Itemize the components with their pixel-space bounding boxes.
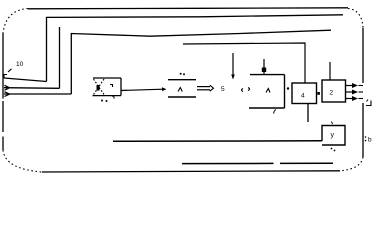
- wire below box U4: [307, 104, 309, 123]
- svg-text:5: 5: [221, 86, 225, 93]
- small mark arrow into box1: [248, 88, 250, 91]
- svg-text:b: b: [368, 137, 372, 144]
- converter inner blob: [97, 85, 100, 91]
- down arrowhead blob 2: [262, 68, 266, 73]
- wire line B segment 1: [182, 162, 274, 164]
- mark between box U4 and box U2: [317, 92, 320, 95]
- wire V2 nested vertical 2: [59, 27, 61, 88]
- mark between box U1 and box U4: [287, 87, 289, 89]
- svg-text:10: 10: [16, 61, 24, 68]
- converter box X bottom edge: [93, 95, 122, 97]
- converter X diagonal 2: [94, 79, 105, 95]
- wire T1 top nested line 1: [47, 15, 344, 82]
- svg-text:2: 2: [330, 90, 334, 97]
- enclosure border left edge: [2, 33, 4, 99]
- output wire 1: [346, 85, 354, 87]
- wire into box U2 top: [329, 62, 331, 80]
- wire L3 input arrow line 3: [4, 93, 71, 95]
- output arrowhead 1: [352, 83, 358, 88]
- converter X diagonal 1: [94, 79, 105, 95]
- tick above box Y: [332, 122, 333, 125]
- enclosure corner top-left dotted: [3, 9, 28, 34]
- output wire 3: [346, 98, 354, 100]
- box U1 bottom edge: [249, 107, 285, 109]
- wire line A to box Y: [113, 140, 322, 143]
- box U1 top edge: [250, 74, 285, 76]
- down arrowhead 1: [231, 75, 235, 80]
- output wire 2: [346, 91, 354, 93]
- filter element top line: [168, 79, 196, 81]
- label 14 dots above filter: [180, 73, 182, 75]
- box U1 right edge: [284, 75, 286, 108]
- dots below box Y: [331, 148, 333, 150]
- output stub 1: [359, 85, 364, 87]
- filter inner caret: [178, 88, 182, 92]
- small mark c: [242, 89, 244, 92]
- output stub 3: [359, 98, 364, 100]
- output arrowhead 3: [352, 96, 358, 101]
- enclosure corner top-right dotted: [348, 9, 363, 29]
- double arrow after filter: [197, 85, 214, 91]
- svg-text:y: y: [331, 132, 335, 139]
- converter box X right edge: [120, 78, 122, 96]
- wire H-mid upper middle line: [183, 43, 305, 83]
- enclosure corner bottom-left dotted: [3, 150, 42, 172]
- input hook tick at bracket top: [4, 75, 7, 79]
- label 7 right of border: [366, 101, 371, 106]
- label 9 under box U1: [274, 110, 276, 114]
- label 12 under converter: [112, 96, 114, 99]
- wire L1 from input bracket to V1: [4, 78, 47, 82]
- box U2: [322, 80, 346, 102]
- svg-text:4: 4: [301, 93, 305, 100]
- enclosure border right edge lower: [362, 103, 364, 157]
- enclosure corner bottom-right dotted: [340, 157, 363, 171]
- converter box X top edge: [93, 77, 121, 79]
- enclosure border bottom edge: [42, 171, 340, 172]
- converter inner tick: [110, 85, 113, 88]
- wire line B segment 2: [280, 162, 333, 164]
- box U1 inner mark: [266, 89, 270, 93]
- input arrowhead 2: [5, 92, 10, 97]
- output stub 2: [359, 91, 364, 93]
- filter element bottom line: [168, 96, 196, 98]
- arrowhead into filter: [162, 87, 167, 91]
- wire H2 nested line from V3 top: [71, 30, 331, 94]
- input arrowhead 1: [5, 85, 10, 90]
- down arrow wire 1: [232, 53, 234, 79]
- enclosure border right edge upper: [362, 28, 364, 83]
- down arrow wire 2 into box U1: [263, 59, 265, 75]
- box Y: [322, 126, 345, 146]
- enclosure border top edge: [28, 8, 348, 9]
- wire converter to filter: [121, 89, 163, 90]
- output arrowhead 2: [352, 90, 358, 95]
- box U4: [292, 83, 317, 104]
- wire L2 input arrow line 2: [4, 87, 60, 90]
- label 10 leader line: [8, 69, 12, 72]
